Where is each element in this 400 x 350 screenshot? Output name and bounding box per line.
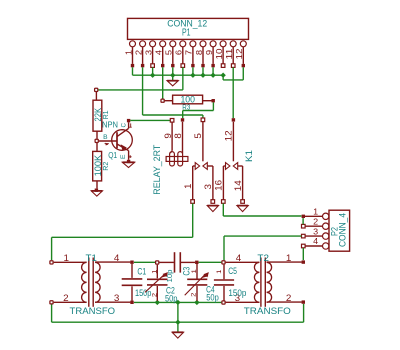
svg-text:1: 1 <box>286 253 292 263</box>
resistor R1 (22K) <box>93 88 110 139</box>
svg-text:150p: 150p <box>228 288 246 298</box>
transistor Q1 pin ticks <box>105 123 132 158</box>
junction bus pin9 <box>210 73 215 78</box>
variable capacitor C2 (50p) <box>145 261 177 304</box>
wire P1 pin11 down to K1 pin12 <box>232 67 234 118</box>
svg-text:8: 8 <box>194 49 204 55</box>
svg-text:C5: C5 <box>228 266 237 276</box>
wire T2 pin2 to bottom loop <box>303 304 305 322</box>
svg-text:5: 5 <box>193 133 203 139</box>
svg-text:Q1: Q1 <box>108 151 117 160</box>
svg-text:CONN_4: CONN_4 <box>337 213 348 247</box>
wire P2 pin3 to tank <box>224 236 301 260</box>
ground under R2 <box>91 191 102 196</box>
wire R3 right to coil pin8 <box>183 102 214 118</box>
svg-text:3: 3 <box>143 49 153 55</box>
svg-text:2: 2 <box>191 292 198 297</box>
wire P1 pin3 stub to bus <box>152 67 154 75</box>
wire P1 pin5 stub to bus <box>172 67 174 75</box>
svg-text:C3: C3 <box>181 267 191 276</box>
svg-text:3: 3 <box>313 226 318 236</box>
wire T1 pin2 to bottom loop <box>51 305 53 323</box>
wire P1 pin6 down to R1 rail <box>98 67 183 90</box>
wire bottom rail <box>134 301 222 303</box>
junction bottom rail C2 <box>155 300 160 305</box>
transistor Q1 labels <box>102 121 127 161</box>
svg-text:1: 1 <box>123 49 133 55</box>
capacitor C3 <box>159 252 198 282</box>
svg-text:1: 1 <box>191 269 198 274</box>
resistor R3 ref label <box>182 103 190 112</box>
junction bus pin7 <box>190 73 195 78</box>
svg-text:8: 8 <box>173 133 183 139</box>
svg-text:4: 4 <box>313 236 318 246</box>
svg-text:10: 10 <box>214 48 224 59</box>
relay K1 contact B pin 16 <box>213 166 225 203</box>
wire K1 pin1 to left border <box>52 203 193 260</box>
svg-text:9: 9 <box>163 133 173 139</box>
svg-text:T2: T2 <box>257 253 269 264</box>
wire P1 pin9 stub to bus <box>212 67 214 75</box>
relay K1 reference label <box>243 150 254 162</box>
wire P1 pin4 down to R3 <box>162 67 164 98</box>
junction bus pin5 <box>170 73 175 78</box>
svg-text:E: E <box>120 154 127 159</box>
ground bottom center <box>172 332 183 338</box>
svg-text:C: C <box>120 123 127 128</box>
svg-text:1: 1 <box>64 253 70 263</box>
node base junction <box>95 139 98 142</box>
svg-text:9: 9 <box>204 49 214 55</box>
svg-text:P1: P1 <box>182 27 191 38</box>
relay K1 contact B (common pin 12) <box>224 118 238 169</box>
svg-text:T1: T1 <box>86 253 97 264</box>
transformer T2 body <box>226 258 305 307</box>
ground under K1 pin14 <box>237 206 248 212</box>
wire P1 pin7 stub to bus <box>192 67 194 75</box>
wire P2 pin1 to pin2 link <box>302 218 304 224</box>
capacitor C5 (150p) <box>214 261 247 304</box>
junction bus pin10 <box>220 73 225 78</box>
svg-text:12: 12 <box>224 130 234 141</box>
relay K1 contact A (common pin 5) <box>193 118 207 169</box>
connector P1 pin numbers 1-12 <box>123 48 244 59</box>
connector P1 pin leads and circles <box>130 41 247 64</box>
relay K1 contact B pin 14 <box>233 166 244 203</box>
ground under Q1 emitter <box>122 162 134 167</box>
svg-text:NPN: NPN <box>102 121 118 130</box>
svg-text:TRANSFO: TRANSFO <box>70 305 116 316</box>
wire P1 pin2 down <box>143 67 203 118</box>
svg-text:TRANSFO: TRANSFO <box>244 305 291 316</box>
connector P2 pins <box>302 207 329 250</box>
capacitor C1 (150p) <box>122 264 152 301</box>
svg-text:5: 5 <box>164 49 174 55</box>
transformer T1 body <box>50 258 134 307</box>
variable capacitor C4 (50p) <box>185 264 219 303</box>
svg-text:1: 1 <box>152 269 159 274</box>
svg-text:2: 2 <box>63 293 69 303</box>
transformer T2 labels <box>235 253 292 316</box>
ground at bus (pin5 column) <box>167 75 178 86</box>
svg-text:C1: C1 <box>137 266 146 276</box>
svg-text:50p: 50p <box>206 293 219 303</box>
svg-text:12: 12 <box>234 48 244 59</box>
svg-text:16: 16 <box>213 180 223 191</box>
svg-text:6: 6 <box>174 49 184 55</box>
svg-text:K1: K1 <box>243 150 254 162</box>
connector P2 box (CONN_4) <box>328 210 349 251</box>
svg-text:R2: R2 <box>101 162 110 171</box>
svg-text:2: 2 <box>286 293 292 303</box>
wire top rail mid <box>199 261 222 263</box>
transformer T1 labels <box>63 253 119 316</box>
svg-text:RELAY_2RT: RELAY_2RT <box>151 144 162 194</box>
svg-text:R1: R1 <box>101 110 110 119</box>
svg-text:B: B <box>103 134 108 141</box>
relay K1 coil <box>166 152 188 166</box>
connector P1 pin end pads <box>131 64 245 68</box>
wire Q1 collector to K1 coil pin9 <box>130 119 170 121</box>
svg-text:1: 1 <box>216 269 223 274</box>
relay K1 contact A pin 3 <box>203 166 215 203</box>
svg-text:11: 11 <box>224 48 234 59</box>
svg-text:4: 4 <box>114 253 120 263</box>
junction bus pin8 <box>200 73 205 78</box>
relay K1 contact A pin 1 <box>183 166 195 203</box>
junction bottom rail C4 <box>194 300 199 305</box>
svg-text:7: 7 <box>184 49 194 55</box>
junction bottom loop <box>175 320 180 325</box>
resistor R3 (100) <box>161 94 215 104</box>
junction bus pin3 <box>150 73 155 78</box>
transistor Q1 body <box>99 119 133 163</box>
svg-text:50p: 50p <box>165 294 178 304</box>
wire bus elbow pin10 to pin12 <box>223 67 243 80</box>
svg-text:4: 4 <box>236 253 242 263</box>
resistor R2 (100E) <box>93 143 110 192</box>
svg-text:1: 1 <box>313 207 318 217</box>
svg-text:2: 2 <box>133 49 143 55</box>
wire P1 pin8 stub to bus <box>202 67 204 75</box>
relay K1 coil pins 9 and 8 <box>163 118 184 153</box>
svg-text:2: 2 <box>313 216 318 226</box>
junction bottom rail gnd stub <box>175 300 180 305</box>
svg-text:4: 4 <box>154 49 164 55</box>
svg-text:3: 3 <box>114 293 120 303</box>
wire P2 pin4 to T2 pin1 <box>302 248 304 260</box>
svg-text:3: 3 <box>203 184 213 190</box>
connector P1 box (CONN_12) <box>128 18 249 39</box>
wire top rail left <box>134 261 155 263</box>
svg-text:150p: 150p <box>135 288 152 298</box>
wire P1 pin1 down to bus <box>133 67 224 75</box>
svg-text:10p: 10p <box>165 270 174 283</box>
wire ground stub and bottom loop <box>52 302 304 331</box>
relay K1 value label RELAY_2RT <box>151 144 162 194</box>
wire K1 pin16 to P2 pin1 <box>223 203 301 216</box>
svg-text:2: 2 <box>152 293 159 298</box>
svg-text:1: 1 <box>183 183 193 189</box>
svg-text:14: 14 <box>233 180 243 191</box>
ground under K1 pin3 <box>207 206 218 212</box>
